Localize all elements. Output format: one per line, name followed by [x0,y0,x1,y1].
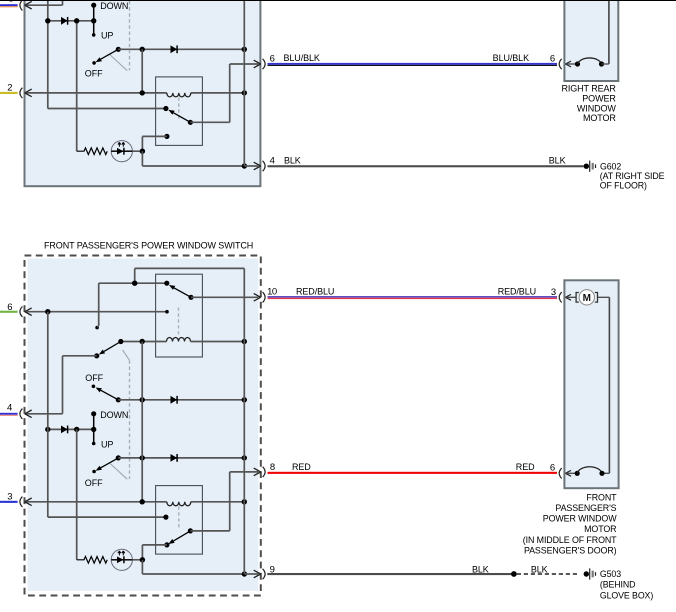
node S4 open contact [92,385,96,389]
wire BLU/RED outside pin 4 [0,413,18,415]
diode D6 on OFF lower row [171,454,178,462]
wire crossbar y20.8 (UP/DOWN diode row) [48,20,94,22]
right rear power window motor box (cut off at top) [564,0,618,81]
wire riser x229.7 to pin6 row [229,64,231,122]
node OFF lower junction x142.2 [140,455,145,460]
node UP contact (bottom) [92,442,96,446]
node BLK splice [511,571,517,577]
wire BLK to G602 [268,165,584,167]
node S6 open contact [92,470,96,474]
switch S5 DOWN/UP toggle bar [93,414,95,444]
wire relay U2 NO feed y283.2 [99,282,167,284]
svg-text:PASSENGER'S DOOR): PASSENGER'S DOOR) [524,545,617,555]
node relay U1 upper fixed contact [163,106,168,111]
wire vertical x98.7 from NO feed down through pin6 row to stub [98,283,100,326]
node relay U2 NC small contact [165,310,169,314]
mech dashed link vertical x129.5 [129,1,131,70]
wire bus vertical x244.3 (cut top) [243,0,245,166]
node coil row at bus [242,339,247,344]
motor M2 feed arrow (pin 6) [565,470,571,476]
right rear power window switch box (cut off at top) [25,0,261,186]
node relay U3 upper fixed contact [163,515,168,520]
wire relay NC contact feed horizontal y108.5 [48,108,166,110]
pin (top-left) connector paren [20,0,23,10]
diode D1 on crossbar [61,17,68,25]
pin (top-left) arrow [25,1,32,9]
svg-text:RED/BLU: RED/BLU [296,286,334,296]
wire LED junction down to pin9 row [141,560,143,574]
wire pin9 row y574 [142,573,244,575]
wire vertical x76.7 crossbar to resistor corner [76,21,78,151]
wire BLU/BLK to right rear motor [268,63,558,65]
diode D4 on OFF upper row [171,396,178,404]
wire vertical x134.7 link [134,268,136,283]
wire pin6 row y311.7 to relay NC small contact [27,311,166,313]
wire pin8 exit row y471.9 [230,471,259,473]
wire OFF lower row y457.9 [118,457,244,459]
wire BLK dashed to G503 [517,573,579,575]
node OFF upper at bus [242,397,247,402]
svg-text:UP: UP [101,439,113,449]
node DOWN contact [91,3,96,8]
mech dashed diagonal OFF2 to linkage [110,464,127,480]
node pin3 row junction x142.2 [140,499,145,504]
wire YEL outside pin 2 [0,92,18,94]
motor M2 body circle [579,290,594,305]
wire pin10 exit row y297.3 [191,296,259,298]
wire pin4 row y413.8 [27,413,63,415]
pin 4 exit paren [263,161,266,171]
node crossbar mid junction (bottom) [74,427,79,432]
svg-text:OFF: OFF [85,69,103,79]
wire S3 contact to pin4 row corner [63,355,97,357]
wire relay U3 NC contact feed y517.1 [48,516,166,518]
node relay U3 armature pivot [188,528,193,533]
svg-text:PASSENGER'S: PASSENGER'S [555,503,616,513]
node motor M1 brush right [599,61,604,66]
node relay U2 armature pivot [188,295,193,300]
node UP contact [92,33,96,37]
svg-text:MOTOR: MOTOR [584,524,616,534]
relay U3 armature arm [174,531,191,541]
node pin2 row at bus [242,90,247,95]
wire armature to riser y530.9 [190,530,229,532]
wire vertical x47.8 (cut top) to relay NC contact corner [47,0,49,109]
motor connector paren pin 3 [559,292,562,302]
wire contact to LED corner y544.9 [142,544,167,546]
mech dashed link diagonal to OFF arm [110,55,127,71]
svg-text:(AT RIGHT SIDE: (AT RIGHT SIDE [600,171,665,181]
pin 10 exit paren [263,292,266,302]
svg-text:OF FLOOR): OF FLOOR) [600,181,647,191]
pin 8 exit paren [263,467,266,477]
pin 8 exit arrow [254,468,261,476]
svg-text:BLK: BLK [531,564,548,574]
wire OFF upper row y399.8 [118,399,244,401]
relay U2 armature arm [174,288,191,297]
wire riser x229.7 to pin8 row [229,472,231,531]
node pin6 row junction x47.8 [45,309,50,314]
pin 10 exit arrow [254,294,261,302]
node relay U1 armature pivot [188,120,193,125]
pin 9 exit arrow [254,570,261,578]
motor M1 feed arrow [565,61,571,67]
wire BLK to G503 (solid part) [267,573,514,575]
svg-text:RED/BLU: RED/BLU [498,286,536,296]
motor M2 feed arrow (pin 3) [565,294,571,300]
relay U3 box [156,486,203,554]
crop edge line at top [0,0,676,2]
node motor M2 brush left [575,471,580,476]
pin 6 arrow (left) [25,308,32,316]
svg-text:OFF: OFF [85,478,103,488]
pin 3 arrow (left) [25,498,32,506]
wire pin2 row y92.9 through relay coil to bus [27,92,167,94]
mech dashed link vertical x129.5 (bottom) [129,360,131,479]
pin 4 arrow (left) [25,410,32,418]
node S2 open contact [92,61,96,65]
svg-text:6: 6 [550,54,555,65]
relay U1 coil L1 (sagging bumps) [167,93,191,97]
svg-text:(IN MIDDLE OF FRONT: (IN MIDDLE OF FRONT [523,535,617,545]
svg-text:M: M [583,293,591,304]
pin 6 exit arrow [254,60,261,68]
node OFF row junction x142.2 [140,47,145,52]
resistor R2 [77,557,108,564]
wire BLU/ORN outside pin [0,4,18,6]
motor M2 right brush bracket [595,293,598,303]
node crossbar mid junction [74,18,79,23]
node relay U1 lower contact (to LED row) [164,134,169,139]
node relay U2 upper fixed contact [164,281,169,286]
svg-text:BLU/BLK: BLU/BLK [284,53,320,63]
node LED junction x142.4 [140,149,145,154]
wire motor M1 brush feed [565,63,576,65]
svg-text:BLK: BLK [549,155,566,165]
node motor M1 brush left [575,61,580,66]
node crossbar left junction (bottom) [45,427,50,432]
wire pin6 exit row y64 [230,63,259,65]
front passenger power window motor box [564,280,618,488]
diode D5 on crossbar (bottom) [61,426,68,434]
svg-text:10: 10 [267,286,277,297]
motor connector paren pin 6 [559,59,562,69]
svg-text:BLK: BLK [472,564,489,574]
motor M2 left brush bracket [576,293,579,303]
node relay U3 lower contact (to LED row) [164,542,169,547]
wire corner down to LED junction [141,136,143,151]
mech dashed link coil L3 down [178,506,180,529]
node S3 down contact [94,353,99,358]
pin 9 exit paren [263,569,266,579]
node OFF lower at bus [242,455,247,460]
wire top-left entry horizontal (BLU/ORN from pin above) [27,4,63,6]
svg-text:BLK: BLK [284,155,301,165]
svg-text:POWER: POWER [582,93,616,103]
svg-text:4: 4 [270,156,275,167]
svg-text:WINDOW: WINDOW [577,103,616,113]
svg-text:MOTOR: MOTOR [583,113,616,123]
wire motor M2 internal right riser [598,296,610,298]
LED D7 (illumination) [111,549,132,570]
node pin3 row at bus [242,499,247,504]
pin 6 exit paren [263,59,266,69]
wire riser to cut edge at x62.5 [62,0,64,5]
switch S6 OFF arm lower [101,458,119,468]
wire relay U2 top link y268.4 [135,267,245,269]
motor connector paren pin 6 (bottom) [559,468,562,478]
node pin2 row junction x142.2 [140,90,145,95]
wire resistor feed y559.8 (bottom) [111,559,142,561]
pin 4 exit arrow [254,162,261,170]
wire vertical x142.2 OFF row to pin2 row [141,49,143,93]
wire motor M2 brush feed (pin 6) [565,472,576,474]
svg-text:G602: G602 [600,161,621,171]
svg-text:FRONT PASSENGER'S POWER WINDOW: FRONT PASSENGER'S POWER WINDOW SWITCH [44,240,253,250]
node OFF row at bus [242,47,247,52]
LED D3 (illumination) [111,141,132,162]
switch S1 DOWN/UP toggle bar [93,5,95,35]
svg-text:OFF: OFF [85,373,103,383]
pin 4 connector paren (left) [20,409,23,419]
node LED junction x142.4 (bottom) [140,557,145,562]
wire motor M2 feed to brush bracket [565,296,575,298]
wire contact to LED corner y136.4 [142,135,167,137]
svg-text:UP: UP [101,31,113,41]
svg-text:DOWN: DOWN [100,1,128,11]
svg-text:(BEHIND: (BEHIND [600,580,635,590]
svg-text:3: 3 [551,287,556,298]
switch S2 OFF arm (relay hold contact) [101,49,119,59]
relay U1 armature arm [174,113,191,123]
node pin9 row at bus [242,571,247,576]
wire pin4 exit stub [244,165,258,167]
node crossbar at toggle bar (bottom) [91,427,96,432]
pin 2 connector paren [20,88,23,98]
svg-text:6: 6 [550,462,555,473]
wire BLU outside pin 3 [0,501,18,503]
wire vertical x142.2 coil row to pin3 row [141,342,143,502]
wire bus vertical x244.3 (bottom) [243,268,245,574]
svg-text:FRONT: FRONT [586,492,617,502]
front passenger switch dashed box [28,258,259,590]
mech dashed link coil to armature [178,98,180,121]
diode D2 on OFF row [171,45,178,53]
svg-text:DOWN: DOWN [100,410,128,420]
wire LED junction down to pin4 row [141,151,143,166]
wire vertical x47.8 pin6 row to relay U3 contact corner [47,312,49,517]
wire motor M1 internal riser [602,63,609,65]
svg-text:RIGHT REAR: RIGHT REAR [561,84,616,94]
node pin4 row at bus [242,163,247,168]
svg-text:POWER WINDOW: POWER WINDOW [543,514,617,524]
wire pin3 row y501.8 through relay coil L3 to bus [27,501,167,503]
resistor R1 [77,148,108,155]
node link junction x134.7 [132,281,137,286]
wire OFF row y49.3 [118,48,244,50]
relay U2 box [156,274,203,357]
node S4 common [116,397,121,402]
wire pin4 row y166 [142,165,244,167]
svg-text:RED: RED [516,462,535,472]
svg-text:GLOVE BOX): GLOVE BOX) [600,590,653,600]
node OFF upper junction x142.2 [140,397,145,402]
wire resistor feed y151.2 [111,150,142,152]
switch S3 arm to down contact [104,342,121,352]
node S6 common [116,455,121,460]
node motor M2 brush right [599,471,604,476]
pin 2 arrow [25,89,32,97]
svg-text:6: 6 [270,54,275,65]
relay U3 coil L3 (sagging bumps) [167,502,191,506]
switch S3 up-arm pivot [118,339,123,344]
wire pin9 exit stub [244,573,258,575]
svg-text:8: 8 [270,462,275,473]
svg-text:BLU/BLK: BLU/BLK [493,53,529,63]
mech dashed link coil L2 up [178,308,180,337]
relay U2 coil L2 (rising bumps) [121,341,167,343]
switch S4 OFF arm upper (relay hold) [101,390,119,400]
ground G503 symbol [584,568,596,579]
wire vertical x76.7 crossbar to resistor (bottom) [76,429,78,559]
node coil row junction x142.2 [140,339,145,344]
node S2 common [116,47,121,52]
wire GRN outside pin 6 [0,311,18,313]
pin label remnant at top edge [10,0,13,2]
motor M2 commutator arc [577,467,602,474]
ground G602 symbol [584,161,596,172]
wire RED/BLU to front passenger motor [268,296,558,298]
pin 3 connector paren (left) [20,497,23,507]
svg-text:4: 4 [7,403,12,414]
wire crossbar y429.4 (bottom) [48,428,94,430]
wire armature to riser y122.3 [190,121,229,123]
node DOWN contact (bottom) [91,411,96,416]
wire corner down to LED junction (bottom) [141,545,143,560]
relay U1 box [156,77,203,145]
node stub contact (manual up contact) [95,326,99,330]
motor M1 commutator arc [578,58,602,64]
node crossbar left junction [45,18,50,23]
svg-text:G503: G503 [600,569,621,579]
node crossbar at toggle bar [91,18,96,23]
pin 6 connector paren (left) [20,307,23,317]
mech dashed diagonal S3 to linkage [123,350,130,361]
wire RED to front passenger motor [268,472,558,474]
svg-text:RED: RED [292,462,311,472]
